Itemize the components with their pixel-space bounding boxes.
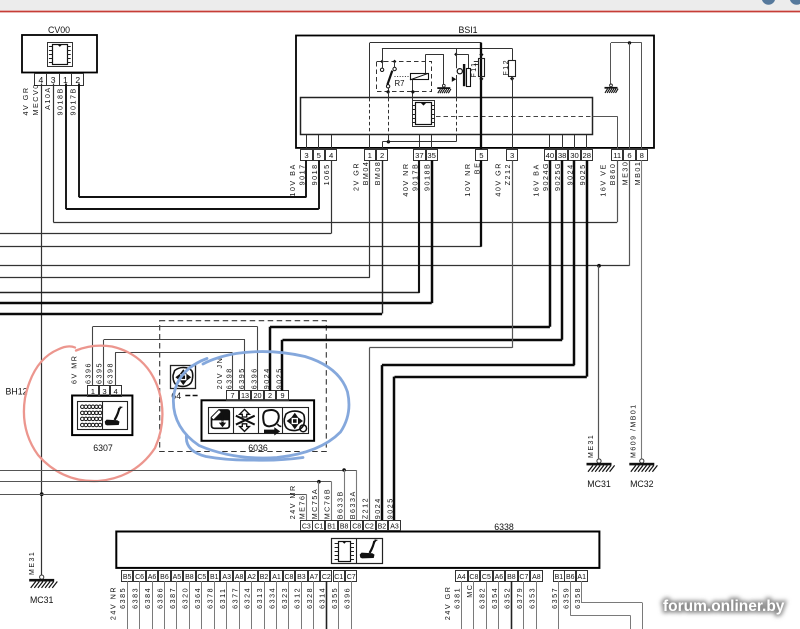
svg-text:C1: C1	[334, 574, 343, 581]
6036 label	[248, 443, 268, 453]
relay R7 contacts	[380, 48, 396, 88]
svg-text:ME31: ME31	[29, 551, 36, 575]
svg-text:MC76B: MC76B	[323, 488, 332, 519]
svg-text:6381: 6381	[453, 587, 462, 609]
ground MC31 right	[587, 434, 615, 472]
relay R7 dashed enclosure	[377, 62, 432, 92]
svg-text:6395: 6395	[95, 362, 104, 384]
svg-text:CV00: CV00	[48, 25, 70, 35]
seat icon 6307	[105, 406, 124, 425]
6036 pins 7 13 20 2 9	[227, 391, 289, 401]
6338 top pins	[301, 521, 401, 531]
6307 label	[93, 443, 113, 453]
svg-text:B633A: B633A	[348, 490, 357, 519]
dashed boundary box	[160, 321, 327, 452]
wire A10A B860	[53, 84, 617, 223]
svg-text:BM08: BM08	[373, 161, 382, 186]
6036 icon dividers	[234, 408, 283, 434]
svg-text:A6: A6	[148, 574, 157, 581]
joystick icon 6036	[284, 411, 306, 432]
svg-text:40V GR: 40V GR	[494, 162, 503, 197]
wire BE drop	[480, 160, 482, 246]
switch 64 icon box	[171, 366, 196, 389]
svg-text:forum.onliner.by: forum.onliner.by	[663, 598, 785, 615]
svg-text:6334: 6334	[268, 587, 277, 609]
svg-text:F11: F11	[471, 61, 478, 77]
svg-text:Z212: Z212	[503, 163, 512, 185]
svg-text:9025: 9025	[386, 497, 395, 519]
svg-text:6353: 6353	[528, 587, 537, 609]
svg-text:6384: 6384	[143, 587, 152, 609]
svg-text:1: 1	[368, 151, 372, 160]
svg-text:6387: 6387	[168, 587, 177, 609]
svg-text:ME30: ME30	[621, 161, 630, 186]
svg-text:B2: B2	[260, 574, 269, 581]
svg-text:20: 20	[253, 391, 261, 400]
6338 bottom stubs left	[128, 581, 352, 629]
wire Z212 inside	[512, 98, 514, 135]
wire line A supply	[370, 42, 482, 44]
ground ME31 left	[29, 551, 57, 605]
svg-text:A7: A7	[310, 574, 319, 581]
svg-text:6036: 6036	[248, 443, 268, 453]
svg-text:6379: 6379	[515, 587, 524, 609]
svg-text:5: 5	[317, 151, 321, 160]
svg-text:11: 11	[613, 151, 621, 160]
svg-text:6313: 6313	[255, 587, 264, 609]
svg-text:1: 1	[91, 387, 95, 396]
svg-text:6307: 6307	[93, 443, 113, 453]
fuse F11 label	[471, 61, 478, 77]
bus wire BM08	[0, 160, 383, 314]
svg-text:MECV0: MECV0	[31, 83, 40, 115]
wire MB01 inside	[641, 43, 643, 150]
6338 bottom pins mid group	[456, 571, 543, 582]
svg-text:C7: C7	[347, 574, 356, 581]
wire ME30 inside	[629, 43, 631, 150]
bus wire B633A	[0, 468, 357, 520]
6338 bottom labels right	[550, 587, 582, 609]
svg-text:B1: B1	[555, 574, 564, 581]
wire switch common down	[387, 88, 390, 98]
6307 wire labels 6V MR 6396 6395 6398	[70, 355, 115, 384]
wire 9024G	[270, 160, 550, 391]
svg-text:BH12: BH12	[5, 387, 27, 397]
bus wire BE	[0, 246, 481, 248]
bus wire ME76	[0, 494, 307, 520]
svg-text:B8: B8	[340, 524, 349, 531]
watermark	[663, 598, 785, 615]
svg-text:M609 /MB01: M609 /MB01	[631, 403, 638, 458]
bus wire 9017B	[0, 160, 419, 293]
svg-text:6354: 6354	[490, 587, 499, 609]
svg-text:A10A: A10A	[43, 86, 52, 110]
svg-text:3: 3	[102, 387, 106, 396]
svg-text:B6: B6	[160, 574, 169, 581]
svg-text:6398: 6398	[106, 362, 115, 384]
svg-text:28: 28	[583, 151, 592, 160]
svg-text:6378: 6378	[205, 587, 214, 609]
svg-text:10V BA: 10V BA	[288, 163, 297, 196]
svg-text:6352: 6352	[503, 587, 512, 609]
svg-text:B8: B8	[507, 574, 516, 581]
6338 bottom stubs mid	[462, 581, 537, 629]
svg-text:9024: 9024	[373, 497, 382, 519]
svg-text:9024G: 9024G	[541, 162, 550, 191]
svg-text:F12: F12	[503, 59, 510, 76]
svg-text:BM04: BM04	[361, 161, 370, 186]
svg-text:A8: A8	[532, 574, 541, 581]
ECU box BSI1	[296, 25, 654, 148]
svg-text:A1: A1	[272, 574, 281, 581]
svg-text:24V NR: 24V NR	[109, 586, 118, 620]
svg-text:B6: B6	[566, 574, 575, 581]
fuse F12	[509, 48, 516, 150]
svg-text:6323: 6323	[280, 587, 289, 609]
svg-text:BSI1: BSI1	[458, 25, 477, 35]
wire MC75A drop	[318, 482, 320, 521]
bus wire BM04	[0, 160, 370, 277]
wire BM04 vertical inside BSI1	[369, 43, 371, 135]
svg-text:6364: 6364	[193, 587, 202, 609]
fuse F12 label	[503, 59, 510, 76]
svg-text:2: 2	[268, 391, 272, 400]
blue highlight ellipse	[173, 352, 349, 461]
wire to ground MC31 right	[598, 266, 600, 459]
svg-text:A3: A3	[222, 574, 231, 581]
wire 9025	[394, 160, 587, 520]
window lift icon	[212, 410, 230, 428]
relay R7 coil	[395, 73, 429, 80]
svg-text:A5: A5	[173, 574, 182, 581]
seat up-down icon	[236, 409, 255, 431]
6338 bottom labels mid	[443, 584, 537, 621]
wire driver output through connector	[456, 98, 458, 142]
svg-text:20V JN: 20V JN	[215, 357, 224, 390]
svg-text:6383: 6383	[131, 587, 140, 609]
svg-text:6324: 6324	[243, 587, 252, 609]
6338 bottom stubs right	[559, 581, 643, 629]
svg-text:B1: B1	[327, 524, 336, 531]
svg-text:9018: 9018	[310, 163, 319, 185]
header band	[0, 0, 800, 10]
bus wire ME30 ground net	[0, 160, 630, 267]
BSI1 pin stubs	[307, 135, 587, 150]
svg-text:6314: 6314	[317, 587, 326, 609]
svg-text:40V NR: 40V NR	[401, 162, 410, 196]
svg-text:9018B: 9018B	[423, 163, 432, 191]
bus wire MC76B	[0, 480, 332, 521]
svg-text:6328: 6328	[305, 587, 314, 609]
svg-text:40: 40	[546, 151, 555, 160]
svg-text:6320: 6320	[180, 587, 189, 609]
BSI1 wire labels	[288, 161, 642, 197]
wire coil bottom to IC	[411, 80, 414, 101]
svg-text:16V VE: 16V VE	[599, 163, 608, 196]
svg-text:A6: A6	[495, 574, 504, 581]
svg-text:Z212: Z212	[361, 497, 370, 519]
CV00 pins 4 3 1 2	[35, 74, 84, 86]
label BH12	[5, 387, 27, 397]
IC icon in 6338	[335, 541, 354, 561]
wire jog to pin 2	[382, 92, 456, 150]
svg-text:30: 30	[570, 151, 579, 160]
transistor driver Q1	[452, 48, 471, 98]
svg-text:B3: B3	[297, 574, 306, 581]
svg-text:6396: 6396	[249, 367, 258, 389]
ground in BSI1 left	[437, 84, 451, 93]
svg-text:9025: 9025	[578, 163, 587, 185]
connector 6307	[72, 396, 132, 436]
6338 icon cells	[332, 539, 383, 564]
svg-text:C8: C8	[284, 574, 293, 581]
IC U1 inside BSI1	[412, 101, 434, 127]
wire 9024	[382, 160, 575, 520]
svg-text:MC32: MC32	[630, 479, 654, 489]
svg-text:3: 3	[510, 151, 514, 160]
svg-text:4: 4	[329, 151, 334, 160]
bus wire 1065	[0, 160, 332, 233]
svg-text:8: 8	[640, 151, 644, 160]
svg-text:B8: B8	[185, 574, 194, 581]
svg-text:6338: 6338	[494, 522, 514, 532]
svg-text:6355: 6355	[330, 587, 339, 609]
wire 6398	[115, 353, 232, 391]
6338 bottom pins left group	[122, 571, 357, 582]
svg-text:1065: 1065	[322, 163, 331, 185]
svg-text:C8: C8	[352, 524, 361, 531]
svg-text:9018B: 9018B	[56, 87, 65, 115]
svg-text:2V GR: 2V GR	[351, 162, 360, 191]
svg-text:ME31: ME31	[588, 434, 595, 458]
svg-text:R7: R7	[395, 79, 405, 88]
svg-text:6382: 6382	[478, 587, 487, 609]
svg-text:6386: 6386	[156, 587, 165, 609]
svg-text:6311: 6311	[218, 587, 227, 608]
svg-text:A4: A4	[457, 574, 466, 581]
svg-text:B5: B5	[123, 574, 132, 581]
svg-text:5: 5	[479, 151, 483, 160]
wire M609 MB01	[631, 160, 642, 458]
IC icon in CV00	[48, 43, 73, 67]
red separator line	[0, 11, 800, 13]
wire coil to ground	[426, 54, 444, 84]
wire 9017	[79, 84, 307, 198]
svg-text:C3: C3	[302, 524, 311, 531]
wire MECV0 4V GR	[40, 84, 44, 576]
ground in BSI1 right	[605, 84, 619, 93]
svg-text:C6: C6	[135, 574, 144, 581]
6338 bottom labels left	[109, 586, 352, 620]
svg-text:24V MR: 24V MR	[288, 484, 297, 519]
svg-text:B860: B860	[608, 163, 617, 186]
connector CV00	[22, 25, 97, 73]
svg-text:B633B: B633B	[335, 490, 344, 519]
label 64	[171, 391, 197, 401]
svg-text:6312: 6312	[293, 587, 302, 609]
svg-text:10V NR: 10V NR	[463, 162, 472, 196]
svg-text:MC75A: MC75A	[310, 488, 319, 519]
svg-text:C2: C2	[365, 524, 374, 531]
svg-text:6396: 6396	[342, 587, 351, 609]
wire B633B drop	[344, 470, 346, 521]
svg-text:4V GR: 4V GR	[21, 86, 30, 115]
svg-text:C8: C8	[469, 574, 478, 581]
backrest tilt icon	[263, 410, 281, 436]
svg-text:A3: A3	[390, 524, 399, 531]
svg-text:35: 35	[427, 151, 436, 160]
svg-text:9: 9	[280, 391, 284, 400]
svg-text:6357: 6357	[550, 587, 559, 609]
svg-text:2: 2	[380, 151, 384, 160]
dashed internal bus in BSI1	[436, 116, 593, 118]
svg-text:ME76: ME76	[298, 495, 307, 520]
svg-text:6377: 6377	[230, 587, 239, 609]
svg-text:C1: C1	[314, 524, 323, 531]
svg-text:6359: 6359	[561, 587, 570, 609]
svg-text:24V GR: 24V GR	[443, 586, 452, 621]
svg-text:A8: A8	[235, 574, 244, 581]
svg-text:B1: B1	[210, 574, 219, 581]
svg-text:C2: C2	[322, 574, 331, 581]
6338 bottom pins right group	[554, 571, 588, 582]
wire 6395	[104, 340, 246, 391]
6338 top wire labels	[288, 484, 395, 519]
connector 6036	[202, 400, 315, 441]
svg-text:16V BA: 16V BA	[531, 163, 540, 196]
svg-text:38: 38	[558, 151, 567, 160]
svg-text:4: 4	[114, 387, 119, 396]
svg-text:C7: C7	[519, 574, 528, 581]
svg-text:6: 6	[627, 151, 631, 160]
svg-text:13: 13	[241, 391, 249, 400]
svg-text:MC31: MC31	[30, 595, 54, 605]
svg-text:6385: 6385	[118, 587, 127, 609]
wire pin 11 link	[593, 116, 618, 150]
connector 6338	[116, 522, 599, 568]
wire line B supply	[382, 48, 512, 50]
svg-text:C5: C5	[482, 574, 491, 581]
wire internal ground net	[611, 41, 642, 84]
svg-text:9017B: 9017B	[69, 87, 78, 115]
bus wire 9018B	[0, 160, 432, 303]
svg-text:6358: 6358	[573, 587, 582, 609]
CV00 wire labels 4V GR MECV0 A10A 9018B 9017B	[21, 83, 77, 115]
svg-text:A1: A1	[577, 574, 586, 581]
svg-text:6396: 6396	[83, 362, 92, 384]
svg-text:MC: MC	[465, 584, 474, 598]
wire 9018	[66, 84, 319, 210]
wire Z212	[369, 160, 512, 520]
svg-text:3: 3	[304, 151, 308, 160]
relay R7 label	[395, 79, 405, 88]
svg-text:A2: A2	[247, 574, 256, 581]
BSI1 inner connector box	[301, 98, 593, 135]
svg-text:MC31: MC31	[587, 479, 611, 489]
svg-text:7: 7	[230, 391, 234, 400]
svg-text:B2: B2	[378, 524, 387, 531]
svg-text:6V MR: 6V MR	[70, 355, 79, 384]
svg-text:MB01: MB01	[633, 161, 642, 186]
ground MC32	[629, 459, 657, 489]
heated seat icon	[81, 405, 102, 427]
seat icon in 6338	[360, 539, 379, 558]
BSI1 pin boxes	[301, 150, 648, 161]
6036 wire labels 20V JN 6398 6395 6396 9024 9025	[215, 357, 283, 390]
svg-text:37: 37	[415, 151, 424, 160]
wire 9025G	[282, 160, 562, 391]
6307 pins 1 3 4	[88, 386, 122, 397]
svg-text:C5: C5	[197, 574, 206, 581]
wire 6396	[93, 327, 258, 391]
fuse F11	[474, 43, 485, 150]
red highlight ellipse	[24, 346, 163, 481]
label MC31	[587, 479, 611, 489]
